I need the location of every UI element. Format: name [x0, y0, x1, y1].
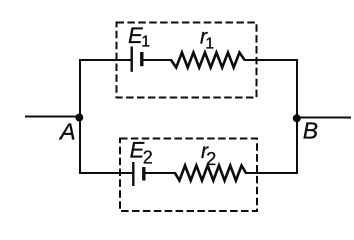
- svg-text:1: 1: [205, 36, 214, 53]
- svg-text:B: B: [303, 117, 318, 143]
- svg-text:A: A: [58, 118, 76, 144]
- svg-text:1: 1: [141, 34, 150, 51]
- svg-text:2: 2: [206, 149, 216, 169]
- svg-text:2: 2: [143, 148, 153, 168]
